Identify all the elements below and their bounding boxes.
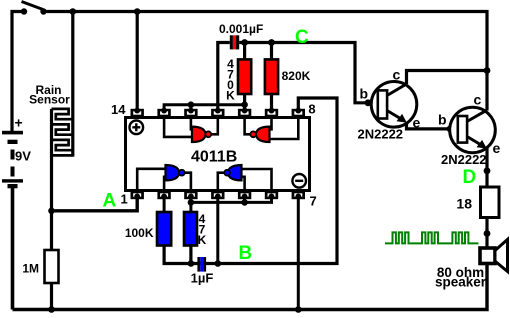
gate U1b wires xyxy=(245,119,299,139)
wire node A to pin 1 xyxy=(52,199,138,211)
svg-text:A: A xyxy=(103,191,117,212)
gate U1b xyxy=(256,127,270,142)
junction 1M bottom rail xyxy=(48,306,55,313)
wire C1 to node C xyxy=(239,43,378,103)
junction 820K xyxy=(268,39,275,46)
junction Q2 base xyxy=(447,125,454,132)
junction speaker xyxy=(484,230,491,237)
svg-text:100K: 100K xyxy=(125,226,154,240)
wire Q1 collector xyxy=(407,71,488,85)
svg-text:K: K xyxy=(226,89,235,103)
svg-text:2N2222: 2N2222 xyxy=(358,127,404,142)
rain sensor xyxy=(29,12,73,157)
wire pins 3-6 bus below IC xyxy=(191,199,272,202)
resistor 470K xyxy=(226,43,251,110)
node A junction xyxy=(48,208,55,215)
resistor 100K xyxy=(125,212,171,246)
switch S1 xyxy=(21,2,47,15)
gate U1d xyxy=(228,165,242,180)
battery B1 9V xyxy=(2,115,31,189)
svg-text:1: 1 xyxy=(121,192,128,207)
svg-text:2N2222: 2N2222 xyxy=(441,152,487,167)
svg-text:e: e xyxy=(493,140,501,156)
svg-text:8: 8 xyxy=(308,102,315,117)
wire sensor to node A to 1M xyxy=(50,109,53,250)
wire node B xyxy=(164,98,337,264)
wire pin4 to node B xyxy=(216,199,219,264)
gate U1c xyxy=(166,165,180,180)
node D junction xyxy=(484,167,491,174)
resistor 18 xyxy=(456,187,499,218)
svg-text:D: D xyxy=(463,167,477,188)
junction C1 470K xyxy=(241,39,248,46)
wire Q1 emitter to Q2 base xyxy=(407,123,458,129)
IC pins bottom xyxy=(131,191,305,199)
capacitor C2 1uF xyxy=(191,257,214,286)
capacitor C1 0.001uF xyxy=(218,22,263,109)
svg-text:0.001µF: 0.001µF xyxy=(219,22,263,36)
svg-text:820K: 820K xyxy=(282,69,311,83)
gate U1c wires xyxy=(137,169,191,189)
gate U1a xyxy=(192,127,206,142)
svg-text:b: b xyxy=(438,112,447,128)
svg-text:1M: 1M xyxy=(22,262,39,276)
wire pin3 to 47K xyxy=(189,199,192,212)
wire top rail left segment xyxy=(12,12,24,132)
waveform xyxy=(385,232,479,243)
svg-text:K: K xyxy=(198,233,207,247)
speaker LS1 xyxy=(435,240,508,290)
svg-text:4011B: 4011B xyxy=(191,149,237,166)
svg-text:18: 18 xyxy=(456,196,472,212)
gate U1a wires xyxy=(164,119,218,137)
junction 47K C2 xyxy=(188,260,195,267)
wire battery to bottom rail xyxy=(11,188,15,310)
svg-text:Sensor: Sensor xyxy=(29,93,70,107)
svg-text:7: 7 xyxy=(310,194,317,209)
IC plus symbol xyxy=(130,121,144,135)
transistor Q1 2N2222 xyxy=(358,67,421,142)
gate U1d wires xyxy=(218,169,272,189)
svg-text:+: + xyxy=(15,115,23,131)
svg-text:14: 14 xyxy=(111,102,126,117)
wire pin2 to 100K xyxy=(163,199,166,212)
svg-text:c: c xyxy=(393,67,401,83)
junction bus pin3 xyxy=(188,199,195,206)
resistor 1M xyxy=(22,250,58,283)
junction pin7 bottom rail xyxy=(295,306,302,313)
node junction top rail sensor xyxy=(70,8,77,15)
wire pin14 from top rail xyxy=(136,12,139,110)
wire pin7 to bottom rail xyxy=(297,199,300,310)
junction top rail Q1 collector xyxy=(484,67,491,74)
wire pins 13-10 bus xyxy=(164,105,245,109)
junction bus pin12 xyxy=(188,101,195,108)
wire top rail xyxy=(44,12,488,111)
svg-text:speaker: speaker xyxy=(435,275,487,290)
svg-text:B: B xyxy=(239,243,253,264)
svg-text:c: c xyxy=(474,92,482,108)
svg-text:9V: 9V xyxy=(15,149,31,164)
svg-text:b: b xyxy=(360,86,369,102)
wire 18 to speaker xyxy=(485,218,488,249)
transistor Q2 2N2222 xyxy=(438,92,501,168)
junction bus pin5 xyxy=(241,199,248,206)
wire bottom rail xyxy=(13,264,488,310)
wire 1M to bottom rail xyxy=(50,283,53,310)
IC pins top xyxy=(131,108,305,117)
junction bus pin10 xyxy=(241,101,248,108)
IC U1 4011B body xyxy=(126,118,310,191)
resistor 47K xyxy=(184,212,207,247)
node junction top rail pin14 xyxy=(134,8,141,15)
IC minus symbol xyxy=(292,174,306,188)
resistor 820K xyxy=(265,43,311,110)
junction pin4 node B xyxy=(215,260,222,267)
svg-text:C: C xyxy=(295,27,309,48)
svg-text:1µF: 1µF xyxy=(191,271,214,286)
wire Q2 emitter to resistor 18 xyxy=(485,148,488,187)
